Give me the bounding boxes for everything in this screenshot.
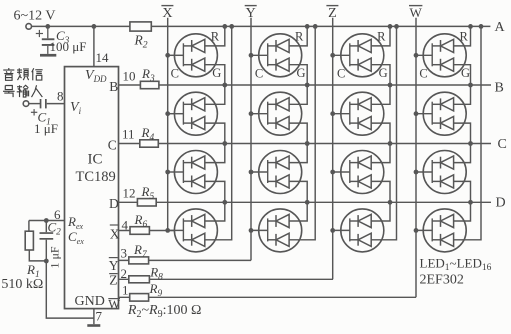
resistor R6 xyxy=(130,227,149,235)
wire pin 7 stub xyxy=(93,309,95,325)
wire LED2 R anode to row 1 xyxy=(289,26,307,46)
node LED16 cathode tap on bus xyxy=(414,228,419,233)
wire column bus Wbar xyxy=(415,18,417,298)
wire column bus Xbar xyxy=(167,18,169,231)
node LED1 cathode tap on bus xyxy=(165,53,170,58)
node R1/C2 junction xyxy=(44,259,49,264)
op-amp U1: IC TC189 body xyxy=(65,67,119,309)
LED LED9 (dual-color 2EF302, row 3 col 1) xyxy=(168,151,218,194)
svg-text:G: G xyxy=(297,66,306,80)
node LED12 cathode tap on bus xyxy=(414,170,419,175)
node LED14 cathode tap on bus xyxy=(249,228,254,233)
wire LED6 R anode to row 2 xyxy=(289,85,307,104)
wire input to C1 xyxy=(29,103,40,105)
wire LED5 R anode to row 2 xyxy=(205,85,225,104)
wire LED10 R anode to row 3 xyxy=(289,144,307,163)
svg-text:Y: Y xyxy=(109,258,119,273)
svg-text:1: 1 xyxy=(122,282,129,297)
node LED13 cathode tap on bus xyxy=(165,228,170,233)
LED LED12 (dual-color 2EF302, row 3 col 4) xyxy=(416,151,466,194)
resistor R1 xyxy=(25,221,46,261)
ground (C3) xyxy=(40,54,56,57)
wire LED13 R anode to row 4 xyxy=(205,202,225,221)
wire pin 2 / Zbar net to R8 and column 3 bus xyxy=(119,278,334,280)
LED LED6 (dual-color 2EF302, row 2 col 2) xyxy=(251,92,302,135)
wire rail A (top supply rail, row A) xyxy=(32,25,491,27)
node LED5 cathode tap on bus xyxy=(165,111,170,116)
wire pin 11 to R4 and rail C (row C) xyxy=(119,143,492,145)
svg-text:3: 3 xyxy=(121,246,128,261)
svg-text:G: G xyxy=(461,66,470,80)
node LED9 cathode tap on bus xyxy=(165,170,170,175)
svg-text:12: 12 xyxy=(123,186,136,201)
svg-text:C: C xyxy=(171,66,179,80)
LED LED4 (dual-color 2EF302, row 1 col 4) xyxy=(416,34,466,77)
svg-text:LED1~LED16: LED1~LED16 xyxy=(420,256,492,274)
wire LED11 G anode to row 4 xyxy=(371,181,390,202)
svg-text:D: D xyxy=(109,196,119,211)
wire LED15 R anode to row 4 xyxy=(371,202,390,221)
pin label Xbar xyxy=(110,225,120,241)
node label Wbar xyxy=(409,5,423,20)
wire pin 3 / Ybar net to R7 and column 2 bus xyxy=(119,259,252,261)
LED LED7 (dual-color 2EF302, row 2 col 3) xyxy=(333,92,384,135)
svg-text:14: 14 xyxy=(96,50,110,65)
svg-text:TC189: TC189 xyxy=(76,169,116,185)
wire LED4 G anode to row 2 xyxy=(454,65,471,85)
node LED10 cathode tap on bus xyxy=(249,170,254,175)
wire LED4 R anode to row 1 xyxy=(454,26,471,46)
svg-text:6~12 V: 6~12 V xyxy=(14,8,56,23)
svg-text:W: W xyxy=(410,5,423,20)
wire LED7 G anode to row 3 xyxy=(371,123,390,143)
node pin14 tap xyxy=(92,24,97,29)
wire LED12 R anode to row 3 xyxy=(454,144,471,163)
svg-text:A: A xyxy=(495,20,506,35)
node label Xbar xyxy=(161,6,173,21)
svg-text:7: 7 xyxy=(96,309,103,324)
svg-text:B: B xyxy=(109,79,118,94)
node C3 tap xyxy=(45,24,50,29)
wire LED9 R anode to row 3 xyxy=(205,144,225,163)
LED LED3 (dual-color 2EF302, row 1 col 3) xyxy=(333,34,384,77)
LED LED8 (dual-color 2EF302, row 2 col 4) xyxy=(416,92,466,135)
svg-text:R: R xyxy=(377,29,386,43)
svg-text:IC: IC xyxy=(88,152,103,168)
wire LED8 G anode to row 3 xyxy=(454,123,471,143)
wire LED2 G anode to row 2 xyxy=(289,65,307,85)
svg-text:2: 2 xyxy=(121,266,128,281)
wire pin 14 stub xyxy=(93,26,95,66)
wire LED5 G anode to row 3 xyxy=(205,123,225,143)
svg-text:100 μF: 100 μF xyxy=(50,39,87,54)
svg-text:C: C xyxy=(419,66,427,80)
pin label Zbar xyxy=(109,273,117,288)
terminal power + xyxy=(26,24,32,30)
LED LED15 (dual-color 2EF302, row 4 col 3) xyxy=(333,209,384,252)
svg-text:1 μF: 1 μF xyxy=(34,121,58,136)
LED LED13 (dual-color 2EF302, row 4 col 1) xyxy=(168,209,218,252)
wire LED10 G anode to row 4 xyxy=(289,181,307,202)
resistor R3 xyxy=(140,81,159,88)
resistor R9 xyxy=(130,294,149,302)
wire LED16 G anode wrap to row A xyxy=(454,26,481,239)
LED LED14 (dual-color 2EF302, row 4 col 2) xyxy=(251,209,302,252)
svg-text:R: R xyxy=(295,29,304,43)
wire pin 4 / Xbar net to R6 and column 1 bus xyxy=(119,230,176,232)
wire LED6 G anode to row 3 xyxy=(289,123,307,143)
svg-text:11: 11 xyxy=(122,127,135,142)
svg-text:1 μF: 1 μF xyxy=(48,246,62,268)
node LED6 cathode tap on bus xyxy=(249,111,254,116)
ground (pin 7) xyxy=(87,324,100,327)
svg-text:510 kΩ: 510 kΩ xyxy=(1,277,43,292)
svg-text:4: 4 xyxy=(122,218,129,233)
wire pin 1 / Wbar net to R9 and column 4 bus xyxy=(119,296,417,298)
node LED2 cathode tap on bus xyxy=(249,53,254,58)
wire LED1 R anode to row 1 xyxy=(205,26,225,46)
node LED4 cathode tap on bus xyxy=(414,53,419,58)
terminal audio input xyxy=(23,101,29,107)
wire LED9 G anode to row 4 xyxy=(205,181,225,202)
svg-text:C: C xyxy=(255,66,263,80)
wire LED16 R anode to row 4 xyxy=(454,202,471,221)
LED LED5 (dual-color 2EF302, row 2 col 1) xyxy=(168,92,218,135)
audio input label (Chinese) xyxy=(3,68,43,97)
svg-text:D: D xyxy=(496,195,506,210)
svg-text:Z: Z xyxy=(109,273,117,288)
svg-text:W: W xyxy=(108,297,120,311)
wire ground run xyxy=(46,261,94,318)
node LED15 cathode tap on bus xyxy=(330,228,335,233)
svg-text:C: C xyxy=(498,137,507,152)
wire column bus Ybar xyxy=(250,18,252,261)
svg-text:C: C xyxy=(108,138,117,153)
LED LED2 (dual-color 2EF302, row 1 col 2) xyxy=(251,34,302,77)
polarity + of C1 xyxy=(31,109,37,115)
wire pin 10 to R3 and rail B (row B) xyxy=(119,84,492,86)
svg-text:8: 8 xyxy=(57,88,64,103)
wire LED12 G anode to row 4 xyxy=(454,181,471,202)
svg-text:X: X xyxy=(110,226,120,241)
node LED8 cathode tap on bus xyxy=(414,111,419,116)
node label Ybar xyxy=(245,6,257,21)
LED LED11 (dual-color 2EF302, row 3 col 3) xyxy=(333,151,384,194)
node label Zbar xyxy=(326,6,338,21)
wire column bus Zbar xyxy=(332,18,334,280)
wire LED3 G anode to row 2 xyxy=(371,65,390,85)
pin label Ybar xyxy=(109,258,119,273)
wire LED14 G anode wrap to row A xyxy=(289,26,315,239)
wire LED15 G anode wrap to row A xyxy=(371,26,396,239)
svg-text:G: G xyxy=(379,66,388,80)
svg-text:G: G xyxy=(212,66,221,80)
resistor R5 xyxy=(137,199,156,206)
wire LED8 R anode to row 2 xyxy=(454,85,471,104)
node LED3 cathode tap on bus xyxy=(330,53,335,58)
capacitor C2 xyxy=(40,221,54,261)
wire C1 to pin 8 xyxy=(47,103,65,105)
resistor R8 xyxy=(129,276,150,283)
resistor R2 xyxy=(130,22,151,31)
svg-text:R: R xyxy=(211,29,220,43)
polarity + of C3 xyxy=(36,30,43,37)
svg-text:C: C xyxy=(337,66,345,80)
svg-text:Y: Y xyxy=(246,6,256,21)
svg-text:2EF302: 2EF302 xyxy=(420,273,464,288)
svg-text:B: B xyxy=(495,81,504,96)
LED LED1 (dual-color 2EF302, row 1 col 1) xyxy=(168,34,218,77)
node pin6/C2 junction xyxy=(44,218,49,223)
node LED7 cathode tap on bus xyxy=(330,111,335,116)
svg-text:GND: GND xyxy=(75,294,105,309)
wire LED14 R anode to row 4 xyxy=(289,202,307,221)
svg-text:X: X xyxy=(162,6,172,21)
node LED11 cathode tap on bus xyxy=(330,170,335,175)
wire LED1 G anode to row 2 xyxy=(205,65,225,85)
wire LED11 R anode to row 3 xyxy=(371,144,390,163)
LED LED16 (dual-color 2EF302, row 4 col 4) xyxy=(416,209,466,252)
svg-text:R: R xyxy=(460,29,469,43)
wire LED3 R anode to row 1 xyxy=(371,26,390,46)
pin label Wbar xyxy=(108,297,120,311)
svg-text:10: 10 xyxy=(123,68,136,83)
wire LED13 G anode wrap to row A xyxy=(205,26,232,239)
resistor R4 xyxy=(140,140,159,147)
wire pin 12 to R5 and rail D (row D) xyxy=(119,201,492,203)
wire pin 6 xyxy=(29,220,65,222)
svg-text:Z: Z xyxy=(328,6,337,21)
capacitor C3 xyxy=(42,26,55,54)
resistor R7 xyxy=(129,257,149,264)
LED LED10 (dual-color 2EF302, row 3 col 2) xyxy=(251,151,302,194)
capacitor C1 xyxy=(40,99,47,108)
wire LED7 R anode to row 2 xyxy=(371,85,390,104)
